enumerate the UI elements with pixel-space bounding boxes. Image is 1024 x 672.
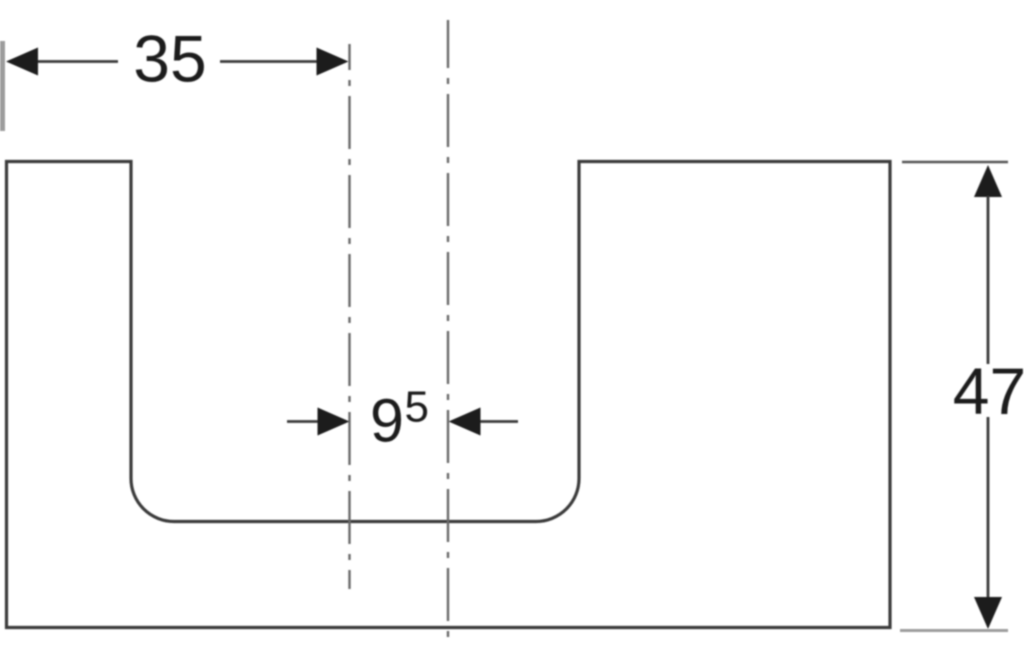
extension line bottom right for dim 47 (gray) [900,629,1008,632]
arrowhead 9.5 right (points left) [449,408,481,436]
dimension line 35 right segment [220,60,320,63]
dimension line 35 left segment [34,60,118,63]
arrowhead 35 left [6,48,38,76]
arrowhead 47 bottom (points down) [974,597,1002,629]
dimension line 47 lower segment [987,417,990,599]
arrowhead 35 right [317,48,349,76]
arrowhead 9.5 left (points right) [318,408,350,436]
svg-text:5: 5 [405,383,429,432]
arrowhead 47 top (points up) [974,165,1002,197]
dimension line 9.5 left segment [287,420,320,423]
dimension line 9.5 right segment [481,420,519,423]
center line A (dash-dot) [348,44,350,589]
svg-text:35: 35 [133,22,206,96]
svg-text:47: 47 [953,354,1024,428]
dimension line 47 upper segment [987,196,990,364]
svg-text:9: 9 [370,387,404,455]
profile outline of countertop with U-shaped cutout [7,162,891,628]
center line B (dash-dot) [447,20,449,645]
extension line left (gray) for dim 35 [0,41,5,131]
extension line top right for dim 47 [902,161,1008,164]
